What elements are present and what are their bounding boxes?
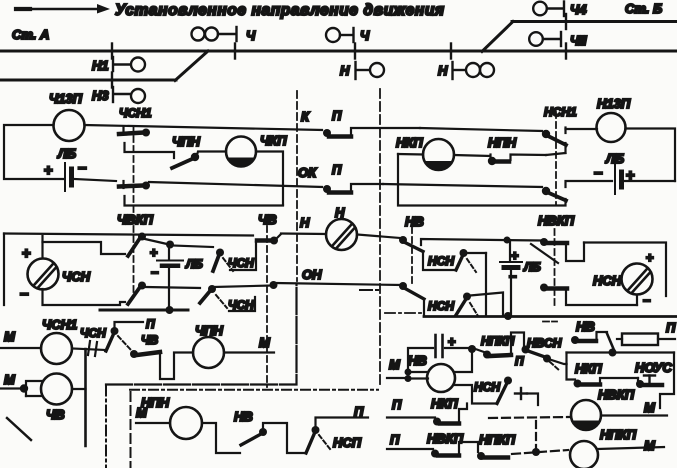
track turnout right — [482, 22, 513, 52]
svg-text:НВСН: НВСН — [527, 336, 562, 350]
svg-text:ЧВ: ЧВ — [46, 407, 65, 422]
contact NVKP mid1 — [531, 238, 584, 263]
svg-text:НПКП: НПКП — [479, 432, 516, 447]
svg-text:Н: Н — [335, 205, 345, 220]
relay ChV — [41, 374, 72, 405]
svg-text:НСН: НСН — [428, 254, 454, 268]
wire OK row right — [383, 184, 542, 187]
wire P row 2 — [387, 448, 433, 450]
svg-text:+: + — [22, 245, 31, 262]
svg-text:НВ: НВ — [408, 353, 427, 368]
relay dash line NV — [411, 227, 413, 287]
wire NPN to NSN1 bracket — [546, 153, 566, 155]
insulated joint — [565, 14, 567, 29]
P rail left — [100, 309, 188, 312]
boundary vertical 2 — [130, 392, 132, 468]
wire P row right — [420, 128, 542, 131]
contact NVKP mid2 — [540, 284, 637, 306]
insulated joint — [234, 44, 236, 59]
relay ChKP — [226, 133, 287, 167]
svg-text:НКП: НКП — [396, 135, 423, 150]
svg-text:П: П — [515, 354, 524, 368]
bracket into NKP — [408, 371, 428, 373]
relay dash line NVKP — [554, 229, 556, 307]
svg-text:К: К — [301, 109, 310, 124]
svg-text:НОУС: НОУС — [635, 360, 672, 375]
dashed branch vertical — [535, 421, 537, 452]
svg-text:+: + — [511, 248, 519, 263]
svg-text:+: + — [448, 334, 456, 349]
signal Ch4 — [533, 2, 564, 17]
P rail right — [424, 315, 677, 318]
svg-text:Ст. Б: Ст. Б — [625, 1, 662, 16]
signal N double right — [453, 62, 495, 79]
battery LB right — [594, 151, 635, 194]
contact ChV (bar) — [257, 234, 326, 245]
wire NKP left — [398, 153, 423, 156]
junction dot battery top — [166, 241, 174, 249]
svg-text:П: П — [332, 108, 342, 123]
contact ChSN1 top — [119, 106, 174, 158]
svg-text:П: П — [146, 317, 155, 331]
wire capacitor right — [445, 347, 470, 349]
contact NKP bottom — [433, 404, 467, 426]
contact ChV bar — [130, 350, 160, 358]
svg-text:Н: Н — [340, 63, 350, 78]
contact NVSN — [522, 336, 567, 371]
contact NPN — [488, 135, 546, 165]
wire NKP chain top — [565, 353, 567, 365]
contact NSP — [306, 404, 368, 453]
svg-text:ЧСН: ЧСН — [228, 256, 254, 270]
svg-text:ЛБ: ЛБ — [523, 260, 541, 274]
svg-text:+: + — [150, 245, 158, 260]
wire NSN lamp bottom — [636, 295, 638, 306]
wire M to ChSN1 — [0, 347, 41, 349]
svg-text:Н3: Н3 — [92, 88, 109, 103]
svg-text:НСН: НСН — [428, 299, 454, 313]
svg-text:ЧСН1: ЧСН1 — [119, 106, 152, 120]
insulated joint — [111, 44, 113, 59]
svg-text:−: − — [643, 293, 651, 308]
contact ChVKP top — [119, 181, 283, 206]
svg-text:ЧПН: ЧПН — [172, 134, 201, 149]
svg-text:НСН1: НСН1 — [544, 105, 577, 119]
svg-text:Ст. А: Ст. А — [12, 27, 49, 42]
contact NPKP row2 — [477, 452, 508, 460]
track main line — [0, 50, 677, 53]
wire N row right — [357, 235, 400, 239]
svg-text:ЧСН: ЧСН — [80, 326, 106, 340]
wire P row 1 — [387, 416, 435, 418]
dashed wire to NPKP relay — [512, 450, 568, 454]
svg-text:НСП: НСП — [333, 435, 362, 450]
rail separator P — [379, 89, 381, 387]
svg-text:ЧСН: ЧСН — [62, 269, 91, 284]
wire NPKP to M — [598, 447, 664, 449]
svg-text:М: М — [136, 405, 148, 420]
dashed wire to NVKP relay — [489, 417, 569, 418]
svg-text:П: П — [392, 397, 402, 412]
boundary vertical left — [105, 386, 107, 468]
contact NSN row2 — [428, 293, 503, 317]
wire M to NPN — [136, 422, 170, 424]
wire battery right — [624, 180, 675, 182]
relay NPN — [170, 407, 202, 439]
svg-text:НКП: НКП — [575, 361, 602, 376]
contact NPKP — [474, 333, 524, 369]
wire N13P to right rail — [626, 129, 676, 182]
svg-text:ЧII: ЧII — [570, 33, 587, 48]
svg-text:М: М — [389, 357, 401, 372]
relay NKP bottom — [427, 364, 455, 392]
wire ChSN1 right — [72, 349, 106, 351]
svg-text:НВ: НВ — [405, 214, 424, 229]
svg-text:+: + — [44, 162, 53, 179]
contact K-P — [323, 128, 420, 137]
wire K row left — [4, 125, 63, 179]
wire NKP right lower to NSN — [455, 385, 497, 404]
track upper right — [512, 20, 677, 23]
svg-text:М: М — [644, 438, 656, 453]
boundary horizontal — [106, 284, 297, 385]
vertical bus from ChSN1 wire — [84, 349, 87, 446]
wire battery to ChSN — [172, 246, 213, 248]
direction arrow — [16, 4, 110, 14]
relay NVKP bottom — [571, 400, 601, 430]
signal Ch single — [326, 28, 354, 42]
track siding left — [0, 79, 176, 82]
svg-text:ЛБ: ЛБ — [605, 151, 624, 166]
arrester NOUS — [635, 360, 672, 388]
relay N (hatched) — [326, 219, 357, 250]
svg-text:НПКП: НПКП — [600, 427, 637, 442]
svg-text:Н: Н — [300, 215, 310, 230]
contact NSN1 top — [542, 105, 597, 153]
inner box top wire — [41, 236, 43, 258]
svg-text:М: М — [644, 400, 656, 415]
wire ChKP to ChVKP bracket — [256, 152, 283, 205]
contact NVKP top — [398, 154, 566, 206]
track turnout left — [175, 51, 208, 81]
inner box bottom wire — [43, 289, 126, 305]
junction dot battery mid-right — [504, 237, 511, 244]
resistor — [617, 320, 676, 345]
svg-text:ЧВ: ЧВ — [258, 212, 277, 227]
svg-text:ЧСН1: ЧСН1 — [42, 317, 77, 332]
wire ChPN to M — [224, 351, 274, 353]
svg-text:Ч: Ч — [246, 28, 256, 43]
svg-text:М: М — [4, 372, 16, 387]
svg-text:+: + — [646, 250, 654, 265]
wire battery left to NVKP — [566, 181, 613, 187]
svg-text:ЧВКП: ЧВКП — [117, 212, 154, 227]
contact ChSN row2 — [200, 281, 278, 312]
contact NSN bottom right — [474, 377, 538, 406]
insulated joint — [450, 44, 452, 59]
lamp LB left — [54, 110, 85, 141]
svg-text:НПН: НПН — [488, 135, 517, 150]
svg-text:ЛБ: ЛБ — [185, 257, 203, 271]
wire — [85, 125, 323, 130]
contact NSN row1 — [428, 249, 486, 316]
signal ChII — [529, 32, 561, 46]
boundary dash tick — [543, 321, 557, 323]
contact ChSN row1 — [213, 242, 256, 271]
rail separator K/OK — [296, 91, 298, 281]
contact NKP chain — [567, 361, 639, 388]
boundary dash right of P rail — [385, 312, 425, 314]
wire ON — [275, 283, 401, 285]
wire right M hook — [660, 353, 674, 409]
signal Ch double — [192, 27, 237, 41]
stray diagonal — [7, 418, 31, 440]
svg-text:ОК: ОК — [298, 165, 317, 180]
wire M to NKP — [387, 377, 405, 379]
signal N single — [356, 62, 385, 79]
contact NV bottom — [234, 409, 306, 453]
svg-text:−: − — [151, 265, 159, 280]
svg-text:НСН: НСН — [474, 380, 500, 394]
wire to battery top — [168, 246, 170, 259]
svg-text:−: − — [20, 286, 29, 303]
svg-text:ЧКП: ЧКП — [260, 133, 287, 148]
svg-text:М: М — [259, 335, 271, 350]
contact ChVKP mid 1 — [128, 233, 167, 257]
svg-text:М: М — [4, 329, 16, 344]
insulated joint — [111, 73, 113, 88]
relay NKP — [396, 135, 454, 170]
svg-text:П: П — [332, 162, 342, 177]
svg-text:НВКП: НВКП — [598, 387, 635, 402]
relay ChSN1 — [41, 333, 72, 364]
lamp N13P — [597, 113, 626, 142]
wire OK row left — [74, 179, 116, 181]
relay NPKP bottom — [570, 441, 598, 468]
svg-text:ЛБ: ЛБ — [57, 146, 76, 161]
contact NV row1 — [399, 236, 456, 270]
bracket into ChV — [26, 381, 42, 396]
capacitor NV — [436, 334, 457, 357]
contact OK-P — [323, 184, 383, 193]
wire down to NKP right — [455, 349, 472, 372]
lamp NSN (hatched) — [622, 264, 653, 295]
svg-text:Ч13П: Ч13П — [49, 91, 83, 106]
signal N1 — [113, 57, 145, 72]
relay dash line ChSN1/ChVKP — [133, 126, 135, 294]
wire N row upper to NVKP — [421, 239, 541, 245]
relay ChPN — [193, 337, 224, 368]
wire up to capacitor — [408, 348, 433, 372]
wire OK row — [149, 182, 322, 187]
contact NV row2 — [399, 282, 424, 316]
contact NV with resistor — [571, 319, 614, 350]
NSN box top wire — [584, 243, 666, 297]
relay dash line ChV — [266, 226, 268, 387]
lamp ChSN (hatched) — [28, 259, 59, 290]
battery LB left — [44, 160, 87, 191]
svg-text:−: − — [78, 160, 87, 177]
svg-text:НСН: НСН — [593, 273, 622, 288]
signal N3 — [113, 87, 145, 103]
boundary horizontal right short — [360, 289, 381, 291]
svg-text:ЧВ: ЧВ — [141, 333, 158, 347]
wire battery bottom to P rail — [168, 267, 170, 310]
svg-text:Ч4: Ч4 — [570, 2, 587, 17]
wire ChV row — [4, 234, 253, 236]
wire NVKP to M — [601, 414, 667, 416]
svg-text:П: П — [354, 404, 364, 419]
insulated joint — [354, 44, 356, 59]
wire ChV right — [72, 388, 86, 390]
insulated joint — [565, 44, 567, 59]
svg-text:Н1: Н1 — [92, 58, 109, 73]
svg-text:НПКП: НПКП — [481, 334, 515, 348]
svg-text:НВКП: НВКП — [538, 213, 575, 228]
contact NVKP row2 — [431, 442, 478, 458]
left rail — [3, 234, 5, 306]
tick marks — [88, 341, 90, 355]
battery LB mid-left — [150, 245, 203, 280]
boundary horizontal inner — [130, 389, 378, 391]
svg-text:−: − — [594, 165, 603, 182]
wire NKP right — [454, 155, 490, 156]
svg-text:НВ: НВ — [576, 319, 595, 334]
contact ChVKP mid 2 — [128, 282, 200, 305]
svg-text:Ч: Ч — [360, 28, 370, 43]
svg-text:Н13П: Н13П — [597, 96, 631, 111]
svg-text:ОН: ОН — [302, 267, 322, 282]
contact ChSN bottom — [80, 317, 158, 351]
svg-text:НКП: НКП — [431, 396, 458, 411]
svg-text:НВ: НВ — [234, 409, 253, 424]
wire NPN right with jog — [202, 423, 240, 453]
svg-text:Установленное направление движ: Установленное направление движения — [115, 2, 445, 19]
svg-text:Н: Н — [438, 63, 448, 78]
battery LB mid-right — [500, 248, 541, 284]
wire M to ChV — [0, 387, 22, 389]
svg-text:П: П — [390, 432, 400, 447]
wire jog to ChPN — [160, 353, 193, 380]
contact ChPN — [172, 134, 226, 168]
relay dash line NSN1/NVKP — [555, 112, 557, 205]
svg-text:П: П — [666, 320, 676, 335]
